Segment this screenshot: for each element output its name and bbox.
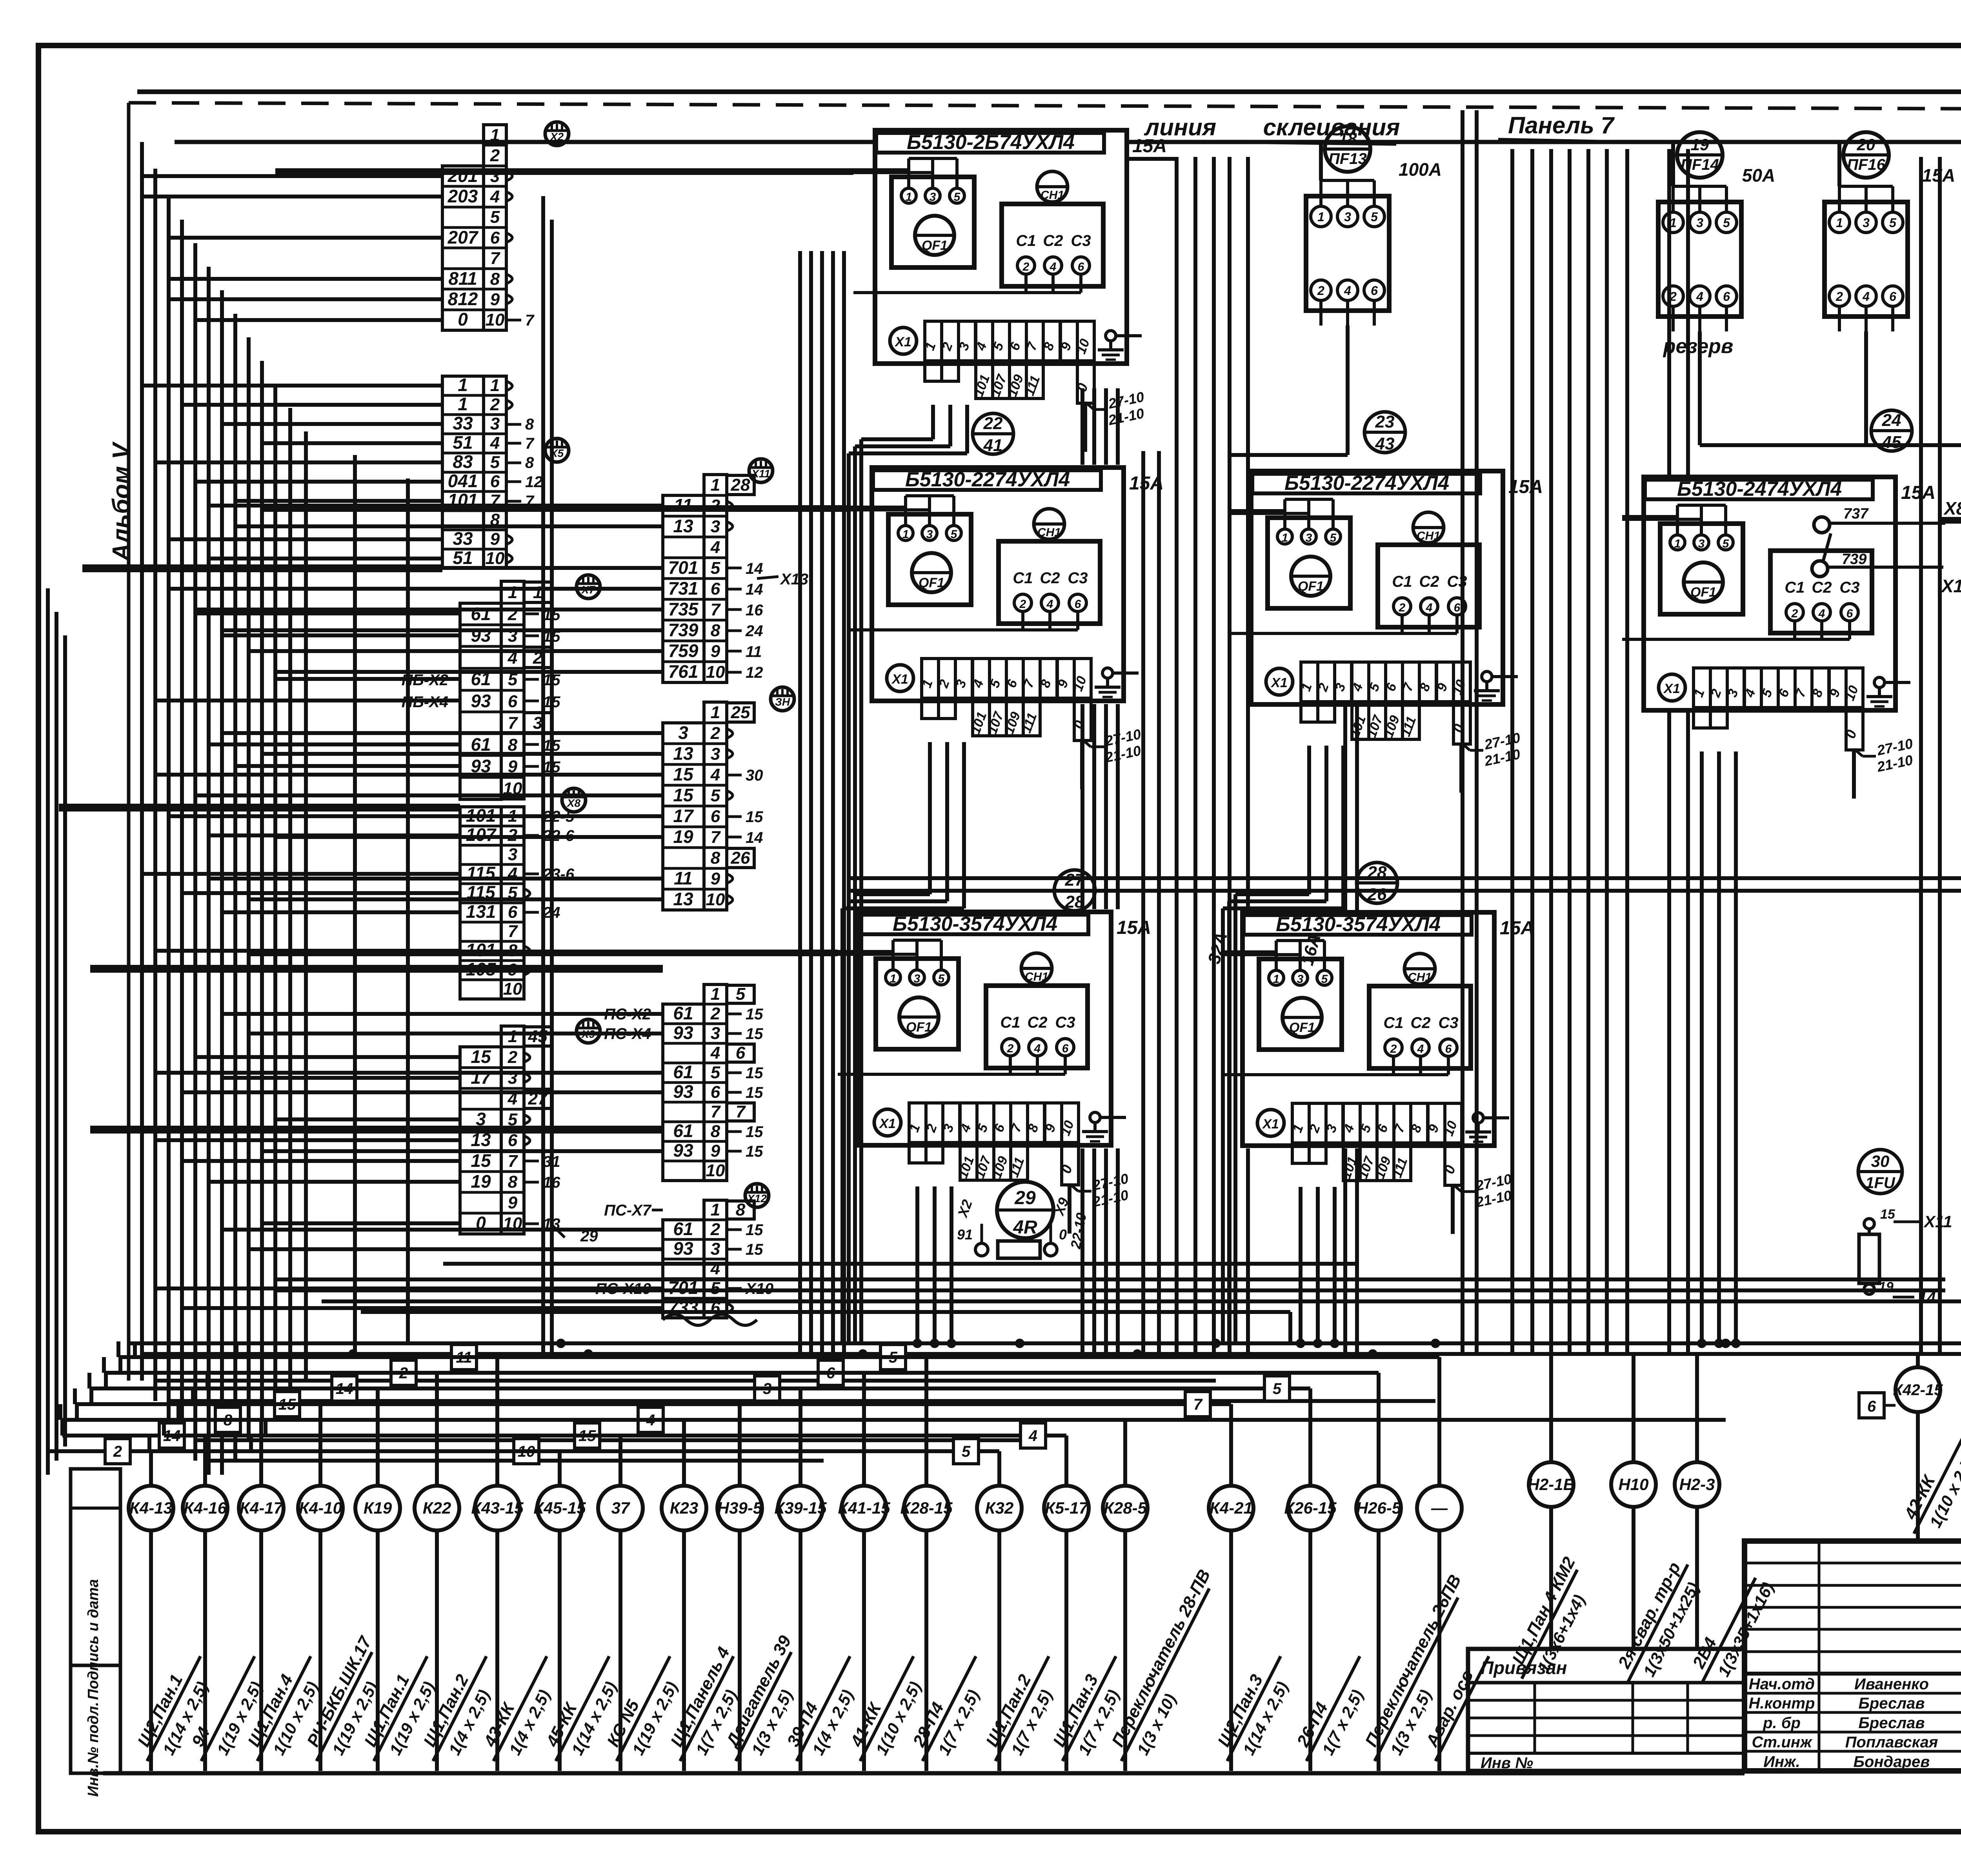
panel top line segment (1127, 140, 1961, 144)
svg-text:1: 1 (458, 394, 468, 414)
wire tag 5 (880, 1345, 906, 1370)
cable circle К22 (415, 1486, 459, 1530)
svg-text:24: 24 (745, 622, 763, 640)
svg-text:ПС-Х7: ПС-Х7 (604, 1202, 652, 1219)
svg-text:61: 61 (673, 1062, 693, 1082)
U9 ground wire (1483, 1116, 1509, 1119)
cable caption Н10: 2я свар. тр-р / 1(3х50+1х25) (1609, 1555, 1709, 1694)
svg-text:2: 2 (1835, 289, 1843, 304)
wire channel (1116, 388, 1120, 465)
svg-text:С2: С2 (1812, 579, 1832, 596)
ПF16 top pin (1891, 186, 1894, 212)
svg-text:759: 759 (668, 640, 699, 661)
svg-text:X1: X1 (891, 672, 908, 687)
wire (353, 455, 357, 1357)
wire channel (1355, 706, 1359, 910)
svg-text:1: 1 (458, 375, 468, 395)
svg-text:Х2: Х2 (549, 131, 564, 143)
ПF13 bottom pin (1346, 300, 1349, 326)
svg-text:2: 2 (113, 1443, 122, 1460)
ПF16 bottom pin (1891, 306, 1894, 331)
svg-text:7: 7 (711, 1102, 721, 1121)
U8 ground wire (1100, 1116, 1126, 1119)
wire to T4 (155, 949, 460, 953)
svg-text:10: 10 (486, 549, 505, 568)
cable wire К28-15 (924, 1530, 928, 1771)
svg-text:7: 7 (711, 600, 721, 619)
svg-text:К19: К19 (364, 1499, 392, 1517)
wire drop (965, 405, 969, 453)
wire channel (1104, 704, 1108, 909)
wire (55, 612, 58, 1461)
U8 pin wire (891, 940, 895, 970)
circuit breaker module U4 Б5130-2474УХЛ4 (1644, 477, 1896, 710)
wire to T1 (169, 297, 442, 301)
svg-text:6: 6 (508, 692, 518, 711)
cable circle К4-17 (239, 1486, 284, 1530)
wire drop (933, 1186, 937, 1343)
terminal block T2 (X5) (484, 376, 506, 568)
svg-text:1: 1 (508, 583, 517, 602)
svg-text:СН1: СН1 (1025, 970, 1048, 983)
wire (1127, 157, 1177, 161)
svg-text:ПF13: ПF13 (1328, 150, 1367, 167)
cable caption К4-17: Щ1,Пан.4 / 1(10 х 2,5) (239, 1647, 332, 1772)
connector Х2 (545, 122, 569, 146)
svg-text:93: 93 (673, 1023, 693, 1043)
svg-text:7: 7 (525, 435, 535, 452)
cable wire Н2-3 (1695, 1507, 1699, 1541)
U1 pin jumper (909, 157, 957, 160)
svg-text:С3: С3 (1839, 579, 1859, 596)
svg-text:61: 61 (673, 1219, 693, 1239)
ПF16 top pin (1865, 186, 1868, 212)
cable circle К4-10 (298, 1486, 343, 1530)
wire to T1 (169, 277, 442, 281)
node 24/45 (1871, 410, 1912, 451)
U8 cap rail (1010, 1073, 1065, 1076)
wire channel (1625, 149, 1629, 1354)
svg-text:15: 15 (471, 1150, 491, 1171)
svg-text:2: 2 (508, 1048, 518, 1067)
U9 lamp СН1 (1404, 953, 1435, 984)
wire channel (1141, 451, 1145, 1354)
wire bundle vertical (193, 243, 197, 1461)
wire channel (1104, 388, 1108, 465)
U2 capacitor unit С1 С2 С3 (999, 541, 1100, 624)
connector Х8 (562, 788, 586, 812)
svg-text:4: 4 (1028, 1427, 1037, 1445)
svg-text:11: 11 (746, 643, 762, 661)
svg-text:5: 5 (1889, 216, 1897, 230)
wire to T3 (155, 699, 460, 702)
svg-text:С1: С1 (1383, 1014, 1403, 1032)
svg-text:131: 131 (466, 901, 496, 922)
bus wire (155, 1379, 1216, 1383)
svg-text:22: 22 (983, 414, 1003, 433)
wire (249, 952, 838, 956)
wire channel (1104, 1148, 1108, 1354)
cable circle Н2-1Б (1529, 1462, 1574, 1507)
svg-text:4: 4 (710, 765, 720, 784)
fan wire to — (118, 1355, 1439, 1359)
U4 aux contact 737 to X8 (1814, 517, 1830, 533)
svg-text:15: 15 (673, 785, 694, 805)
svg-text:2: 2 (1399, 601, 1406, 614)
bus wire (361, 1310, 1290, 1314)
svg-text:4: 4 (710, 1043, 720, 1063)
cable circle Н2-3 (1675, 1462, 1719, 1507)
ПF14 top pin (1725, 186, 1728, 212)
wire bundle vertical (140, 142, 144, 1381)
cable caption К4-16: 94 / 1(19 х 2,5) (183, 1647, 276, 1772)
U1 capacitor unit С1 С2 С3 (1002, 204, 1103, 286)
svg-text:15А: 15А (1901, 482, 1936, 503)
left stamp column (71, 1469, 120, 1773)
U2 feed wire (850, 508, 930, 511)
svg-text:8: 8 (508, 1172, 518, 1192)
bus wire (129, 1341, 1961, 1345)
svg-text:13: 13 (673, 889, 693, 909)
cable caption К45-15: 45-КК / 1(14 х 2,5) (537, 1647, 631, 1772)
svg-text:93: 93 (673, 1140, 693, 1161)
svg-text:2: 2 (1317, 284, 1324, 298)
wire to M2 (249, 897, 663, 901)
svg-text:6: 6 (711, 579, 720, 599)
svg-text:1FU: 1FU (1865, 1174, 1896, 1192)
U8 pin wire (940, 940, 943, 970)
svg-text:5: 5 (938, 972, 945, 985)
svg-text:К4-17: К4-17 (240, 1499, 284, 1517)
ПF13 top pin (1373, 180, 1376, 206)
svg-text:7: 7 (711, 828, 721, 847)
cable wire К4-13 (149, 1530, 153, 1771)
wire to M3 (249, 1032, 663, 1035)
cable wire К4-16 (203, 1530, 207, 1771)
U3 cap pin wire (1401, 615, 1404, 633)
svg-text:6: 6 (508, 903, 518, 922)
svg-text:203: 203 (448, 186, 478, 206)
svg-text:3: 3 (930, 191, 936, 204)
ПF14 bottom pin (1672, 306, 1675, 331)
cable wire — (1437, 1530, 1441, 1771)
svg-text:100А: 100А (1399, 159, 1442, 180)
svg-text:С2: С2 (1040, 570, 1060, 587)
cable circle К28-15 (904, 1486, 949, 1530)
svg-text:QF1: QF1 (922, 238, 948, 253)
wire to M2 (262, 752, 663, 756)
ПF14 bottom pin (1725, 306, 1728, 331)
wire (288, 408, 292, 1401)
node 28/26 (1357, 862, 1397, 903)
svg-text:5: 5 (1330, 531, 1337, 544)
svg-text:6: 6 (1723, 289, 1730, 304)
wire channel (541, 196, 545, 1354)
wire bundle vertical (207, 267, 211, 1475)
svg-text:Инж.: Инж. (1763, 1753, 1800, 1770)
wire channel (1461, 110, 1464, 1354)
svg-text:25: 25 (731, 703, 750, 722)
U3 feed wire (1230, 509, 1285, 512)
svg-text:Б5130-2474УХЛ4: Б5130-2474УХЛ4 (1677, 478, 1842, 500)
contactor drop wires (1346, 326, 1350, 455)
bus wire (182, 1418, 1726, 1422)
cable circle К41-15 (842, 1486, 886, 1530)
svg-text:7: 7 (736, 1102, 746, 1121)
svg-text:Х8: Х8 (566, 797, 581, 809)
svg-text:6: 6 (1889, 289, 1896, 304)
wire to T4 (195, 968, 460, 972)
svg-text:3: 3 (490, 414, 500, 433)
cable caption К22: Щ1,Пан.2 / 1(4 х 2,5) (415, 1647, 508, 1772)
svg-text:1: 1 (711, 703, 720, 722)
svg-text:6: 6 (490, 472, 500, 491)
svg-text:Н26-5: Н26-5 (1356, 1499, 1401, 1517)
wire to T2 (195, 480, 442, 484)
svg-text:26: 26 (1367, 885, 1387, 904)
cable circle К23 (662, 1486, 706, 1530)
svg-text:5: 5 (962, 1443, 971, 1460)
U2 breaker QF1 (888, 514, 971, 605)
wire to M1 (142, 566, 663, 570)
cable caption К4-13: Щ2,Пан.1 / 1(14 х 2,5) (129, 1647, 222, 1772)
svg-text:Х13: Х13 (780, 571, 808, 588)
bus wire (209, 1459, 824, 1463)
cable caption К43-15: 43-КК / 1(4 х 2,5) (475, 1647, 568, 1772)
svg-text:4: 4 (1344, 284, 1351, 298)
resistor node 29/4R (997, 1182, 1053, 1238)
cable wire К4-17 (259, 1530, 263, 1771)
ПF14 bottom pin (1698, 306, 1701, 331)
cable wire К19 (376, 1530, 380, 1771)
wire to M1 (235, 524, 663, 528)
wire bundle vertical (247, 337, 251, 1440)
svg-text:15: 15 (746, 1143, 763, 1160)
U9 cap pin wire (1419, 1056, 1422, 1075)
svg-text:К45-15: К45-15 (533, 1499, 586, 1517)
wire channel (820, 251, 824, 1354)
terminal block M4 (704, 1200, 727, 1318)
U2 cap rail out (850, 628, 1023, 631)
svg-text:2: 2 (1791, 607, 1798, 620)
cable circle Н26-5 (1356, 1486, 1401, 1530)
U4 cap pin wire (1793, 621, 1796, 639)
svg-text:1: 1 (1273, 973, 1280, 986)
node 27/28 (1054, 870, 1095, 911)
wire to T5 (222, 1076, 460, 1080)
wire (63, 635, 67, 1447)
cable circle К39-15 (778, 1486, 823, 1530)
svg-text:QF1: QF1 (1690, 585, 1716, 600)
wire (249, 950, 838, 953)
cable circle К5-17 (1044, 1486, 1089, 1530)
svg-text:8: 8 (490, 269, 500, 289)
U9 pin wire (1275, 941, 1278, 970)
svg-text:14: 14 (746, 829, 763, 846)
svg-text:7: 7 (1193, 1396, 1203, 1413)
svg-text:12: 12 (746, 664, 763, 681)
U1 cap pin wire (1079, 274, 1082, 293)
svg-text:К32: К32 (985, 1499, 1014, 1517)
wire channel (1175, 157, 1179, 1354)
wire to T4 (142, 872, 460, 876)
wire drop (1734, 751, 1738, 1343)
wire to M2 (209, 877, 663, 881)
wire tag 4 (638, 1407, 663, 1432)
svg-text:93: 93 (673, 1081, 693, 1102)
svg-text:7: 7 (490, 249, 501, 268)
wire channel (831, 251, 835, 1354)
U4 cap rail (1795, 638, 1850, 641)
node 23/43 (1364, 412, 1405, 453)
svg-text:4: 4 (1050, 260, 1057, 273)
svg-text:19: 19 (471, 1171, 491, 1192)
svg-text:16: 16 (746, 602, 763, 619)
wire channel (798, 251, 802, 1354)
wire to M3 (182, 1090, 663, 1094)
U8 feed wire (838, 950, 893, 953)
wire tag 14 (159, 1423, 184, 1448)
wire to T1 (169, 236, 442, 240)
svg-text:29: 29 (1014, 1188, 1036, 1208)
torn edge of M4 (663, 1314, 757, 1325)
wire channel (809, 251, 813, 1354)
wire channel (1355, 1148, 1359, 1354)
svg-text:Бреслав: Бреслав (1858, 1714, 1925, 1732)
svg-text:26: 26 (731, 848, 750, 868)
svg-text:3: 3 (914, 972, 920, 985)
svg-text:6: 6 (711, 807, 720, 826)
U4 cap rail out (1622, 638, 1795, 641)
bus wire (195, 1438, 1020, 1442)
wire tag 5 (1264, 1376, 1290, 1401)
wire drop (1307, 746, 1311, 894)
fan wire to К4-21 (75, 1402, 1231, 1406)
cable circle К45-15 (537, 1486, 582, 1530)
svg-text:9: 9 (711, 1141, 720, 1161)
U1 cap rail (1026, 291, 1081, 294)
wire to M2 (222, 731, 663, 735)
wire to M1 (275, 670, 663, 674)
U4 aux contact 739 to X10 (1812, 561, 1828, 577)
U4 ground wire (1885, 681, 1910, 684)
ПF14 top pin (1698, 186, 1701, 212)
cable wire К43-15 (495, 1530, 499, 1771)
svg-text:61: 61 (673, 1003, 693, 1023)
svg-text:С3: С3 (1068, 570, 1088, 587)
svg-text:К28-5: К28-5 (1104, 1499, 1147, 1517)
cable wire К32 (997, 1530, 1001, 1771)
cable wire Н10 (1632, 1507, 1635, 1541)
wire to T2 (209, 557, 442, 560)
contactor ПF16 (node 20) (1843, 132, 1889, 178)
svg-text:15: 15 (746, 1123, 763, 1141)
fan wire to Н26-5 (104, 1371, 1379, 1375)
U3 cap pin wire (1428, 615, 1431, 633)
cable wire К39-15 (799, 1530, 802, 1771)
svg-text:10: 10 (706, 662, 725, 682)
wire to T5 (182, 1159, 460, 1163)
wire to T3 (235, 764, 460, 768)
svg-text:X1: X1 (879, 1116, 896, 1131)
svg-text:50А: 50А (1742, 165, 1775, 186)
svg-text:С3: С3 (1055, 1014, 1075, 1031)
U3 ground wire (1492, 675, 1518, 678)
wire bundle vertical (233, 314, 237, 1461)
wire channel (1092, 1148, 1096, 1354)
svg-text:8: 8 (508, 735, 518, 755)
wire tag 7 (1185, 1392, 1210, 1417)
svg-text:41: 41 (983, 436, 1003, 455)
fan wire to К4-16 (62, 1434, 205, 1437)
wire tag 2 (105, 1439, 130, 1464)
svg-text:6: 6 (1078, 260, 1084, 273)
wire to T2 (235, 499, 442, 503)
fan wire to К41-15 (222, 1371, 864, 1375)
heavy feed line pairs (82, 564, 442, 568)
svg-text:Иваненко: Иваненко (1854, 1676, 1929, 1693)
wire to T1 (195, 318, 442, 322)
wire channel (1081, 704, 1084, 909)
wire channel (1686, 713, 1690, 1354)
resistor body (998, 1241, 1040, 1258)
svg-text:5: 5 (711, 1063, 720, 1082)
wire to M2 (195, 793, 663, 797)
terminal block M3 (704, 984, 727, 1181)
svg-text:1: 1 (490, 126, 500, 145)
svg-text:15: 15 (471, 1046, 491, 1067)
svg-text:51: 51 (453, 432, 473, 453)
svg-text:1: 1 (711, 1200, 720, 1219)
U4 feed wire (1622, 515, 1677, 518)
svg-text:К22: К22 (423, 1499, 451, 1517)
bus wire (169, 1399, 1435, 1403)
svg-text:4R: 4R (1013, 1217, 1037, 1238)
svg-text:3: 3 (1344, 210, 1351, 224)
svg-text:4: 4 (710, 538, 720, 557)
svg-text:811: 811 (448, 268, 477, 289)
svg-text:1: 1 (1836, 216, 1843, 230)
svg-text:Х11: Х11 (751, 468, 770, 480)
svg-text:43: 43 (1375, 434, 1395, 453)
cable circle К4-16 (183, 1486, 227, 1530)
wire to T2 (142, 384, 442, 388)
svg-text:701: 701 (668, 557, 699, 578)
svg-text:3: 3 (1698, 537, 1705, 550)
wire to T5 (195, 1055, 460, 1059)
wire drop (931, 405, 935, 439)
cable circle К28-5 (1103, 1486, 1148, 1530)
wire channel (1938, 157, 1942, 1354)
svg-text:93: 93 (673, 1238, 693, 1259)
wire to M2 (155, 773, 663, 777)
svg-text:739: 739 (668, 620, 699, 640)
svg-text:С1: С1 (1013, 570, 1033, 587)
svg-text:5: 5 (711, 1279, 720, 1298)
svg-text:Х12: Х12 (746, 1192, 767, 1205)
cable wire К45-15 (558, 1530, 562, 1771)
wire (1940, 517, 1961, 521)
wire channel (1228, 157, 1232, 1354)
svg-text:9: 9 (490, 290, 500, 309)
connector ЗН (771, 687, 794, 711)
svg-text:4: 4 (1862, 289, 1870, 304)
svg-text:5: 5 (711, 559, 720, 578)
U2 cap pin wire (1021, 611, 1024, 630)
cable wire Н26-5 (1377, 1530, 1381, 1771)
svg-text:11: 11 (674, 868, 693, 888)
wire channel (1246, 157, 1250, 910)
